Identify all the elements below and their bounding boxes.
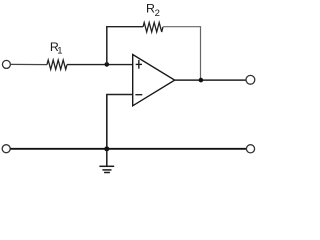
ground rail (bottom wire) — [10, 148, 246, 150]
wire: node A up to feedback rail — [106, 26, 108, 64]
pin - (inverting input marker) — [135, 94, 142, 96]
svg-text:2: 2 — [155, 8, 160, 19]
terminal bottom right — [246, 145, 254, 153]
node B (output junction) — [199, 78, 204, 83]
wire: feedback rail down to output node B — [200, 27, 202, 80]
resistor R1 — [47, 60, 67, 69]
label R1 — [50, 40, 63, 57]
wire: input terminal to R1 — [11, 63, 47, 65]
wire: inverting input down to ground rail — [106, 95, 108, 149]
wire: feedback rail, left segment to R2 — [106, 26, 143, 28]
input terminal (top left) — [2, 60, 10, 68]
ground — [99, 149, 114, 173]
op-amp U1 — [133, 55, 175, 106]
pin + (non-inverting input marker) — [136, 60, 142, 69]
output terminal (right) — [246, 75, 255, 84]
wire: op-amp output to output terminal (through node B) — [175, 79, 246, 81]
wire: R1 to non-inverting input (through node A) — [67, 64, 133, 66]
node C (ground rail junction) — [104, 146, 109, 151]
terminal bottom left — [2, 145, 10, 153]
svg-text:1: 1 — [57, 46, 62, 57]
resistor R2 — [143, 23, 163, 33]
node A (junction of R1, feedback branch, + input) — [105, 62, 110, 67]
label R2 — [146, 1, 160, 19]
wire: inverting input horizontal segment — [106, 94, 133, 96]
wire: feedback rail, right segment from R2 — [163, 26, 201, 28]
